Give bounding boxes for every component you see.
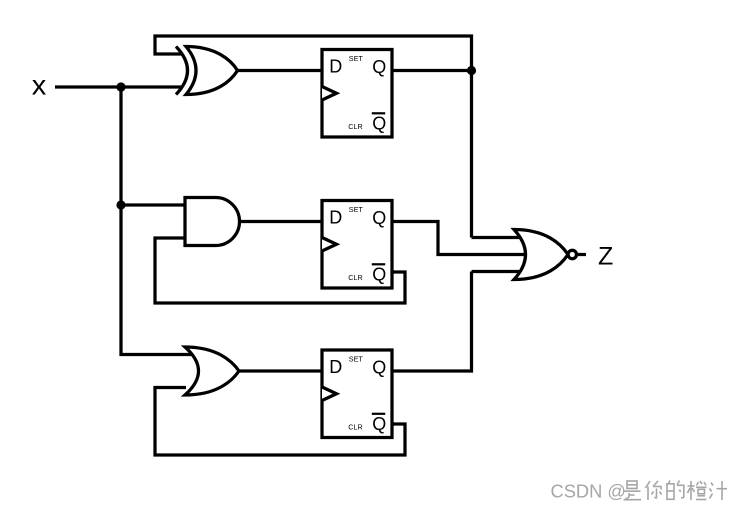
char de	[667, 481, 684, 500]
svg-text:Q: Q	[372, 357, 386, 377]
svg-text:SET: SET	[349, 54, 364, 63]
wire: NOR output to Z	[577, 253, 587, 256]
wire: OR output to FF3 D input	[239, 369, 323, 372]
svg-text:CSDN @: CSDN @	[551, 481, 626, 502]
svg-text:D: D	[329, 208, 342, 228]
wire: input x horizontal	[55, 85, 183, 88]
wire: FF3 Qbar feedback loop to OR bottom input	[155, 388, 405, 456]
flip-flop U2 box	[322, 201, 392, 289]
nor gate G4 body	[514, 230, 568, 280]
svg-text:CLR: CLR	[348, 122, 362, 131]
watermark chinese glyphs (hand drawn)	[624, 481, 728, 501]
svg-text:CLR: CLR	[348, 273, 362, 282]
flip-flop U3 box	[322, 350, 392, 438]
svg-text:SET: SET	[349, 355, 364, 364]
svg-text:CLR: CLR	[348, 422, 362, 431]
wire: FF2 Qbar feedback loop to AND bottom input	[155, 238, 405, 303]
wire: FF1 Q output to junction	[392, 69, 472, 72]
or gate G3	[185, 347, 239, 395]
flip-flop U1 box	[322, 50, 392, 138]
svg-text:Z: Z	[598, 243, 613, 271]
svg-text:x: x	[32, 69, 47, 100]
wire: NOR gate bottom input	[472, 270, 522, 273]
svg-text:Q: Q	[372, 414, 386, 434]
wire: FF2 Q output to NOR middle input	[392, 222, 526, 255]
xor gate G1	[176, 47, 238, 95]
flip-flop U2 clock pin triangle	[322, 238, 337, 252]
wire: x branch vertical down to OR gate	[121, 87, 193, 355]
svg-text:Q: Q	[372, 57, 386, 77]
char ni	[646, 481, 662, 500]
char shi	[624, 481, 642, 500]
junction node: x to AND	[116, 200, 125, 209]
wire: branch to AND gate top input	[121, 203, 187, 206]
flip-flop U3 clock pin triangle	[322, 387, 337, 401]
flip-flop U1 clock pin triangle	[322, 87, 337, 101]
svg-text:Q: Q	[372, 114, 386, 134]
nor gate G4 output bubble	[568, 250, 576, 258]
junction node: x to XOR	[116, 82, 125, 91]
wire: FF1 Q feedback loop to XOR top input	[155, 36, 472, 238]
and gate G2	[185, 198, 240, 246]
svg-text:D: D	[329, 57, 342, 77]
svg-text:Q: Q	[372, 265, 386, 285]
char cheng	[688, 481, 707, 500]
junction node: FF1 Q feedback	[467, 66, 476, 75]
wire: NOR gate top input	[472, 236, 522, 239]
char zhi	[710, 481, 728, 500]
wire: AND output to FF2 D input	[240, 220, 324, 223]
watermark CSDN	[551, 481, 626, 502]
wire: FF3 Q output up to NOR bottom input	[392, 272, 472, 372]
svg-text:D: D	[329, 357, 342, 377]
svg-text:Q: Q	[372, 208, 386, 228]
wire: XOR output to FF1 D input	[237, 69, 323, 72]
svg-text:SET: SET	[349, 205, 364, 214]
